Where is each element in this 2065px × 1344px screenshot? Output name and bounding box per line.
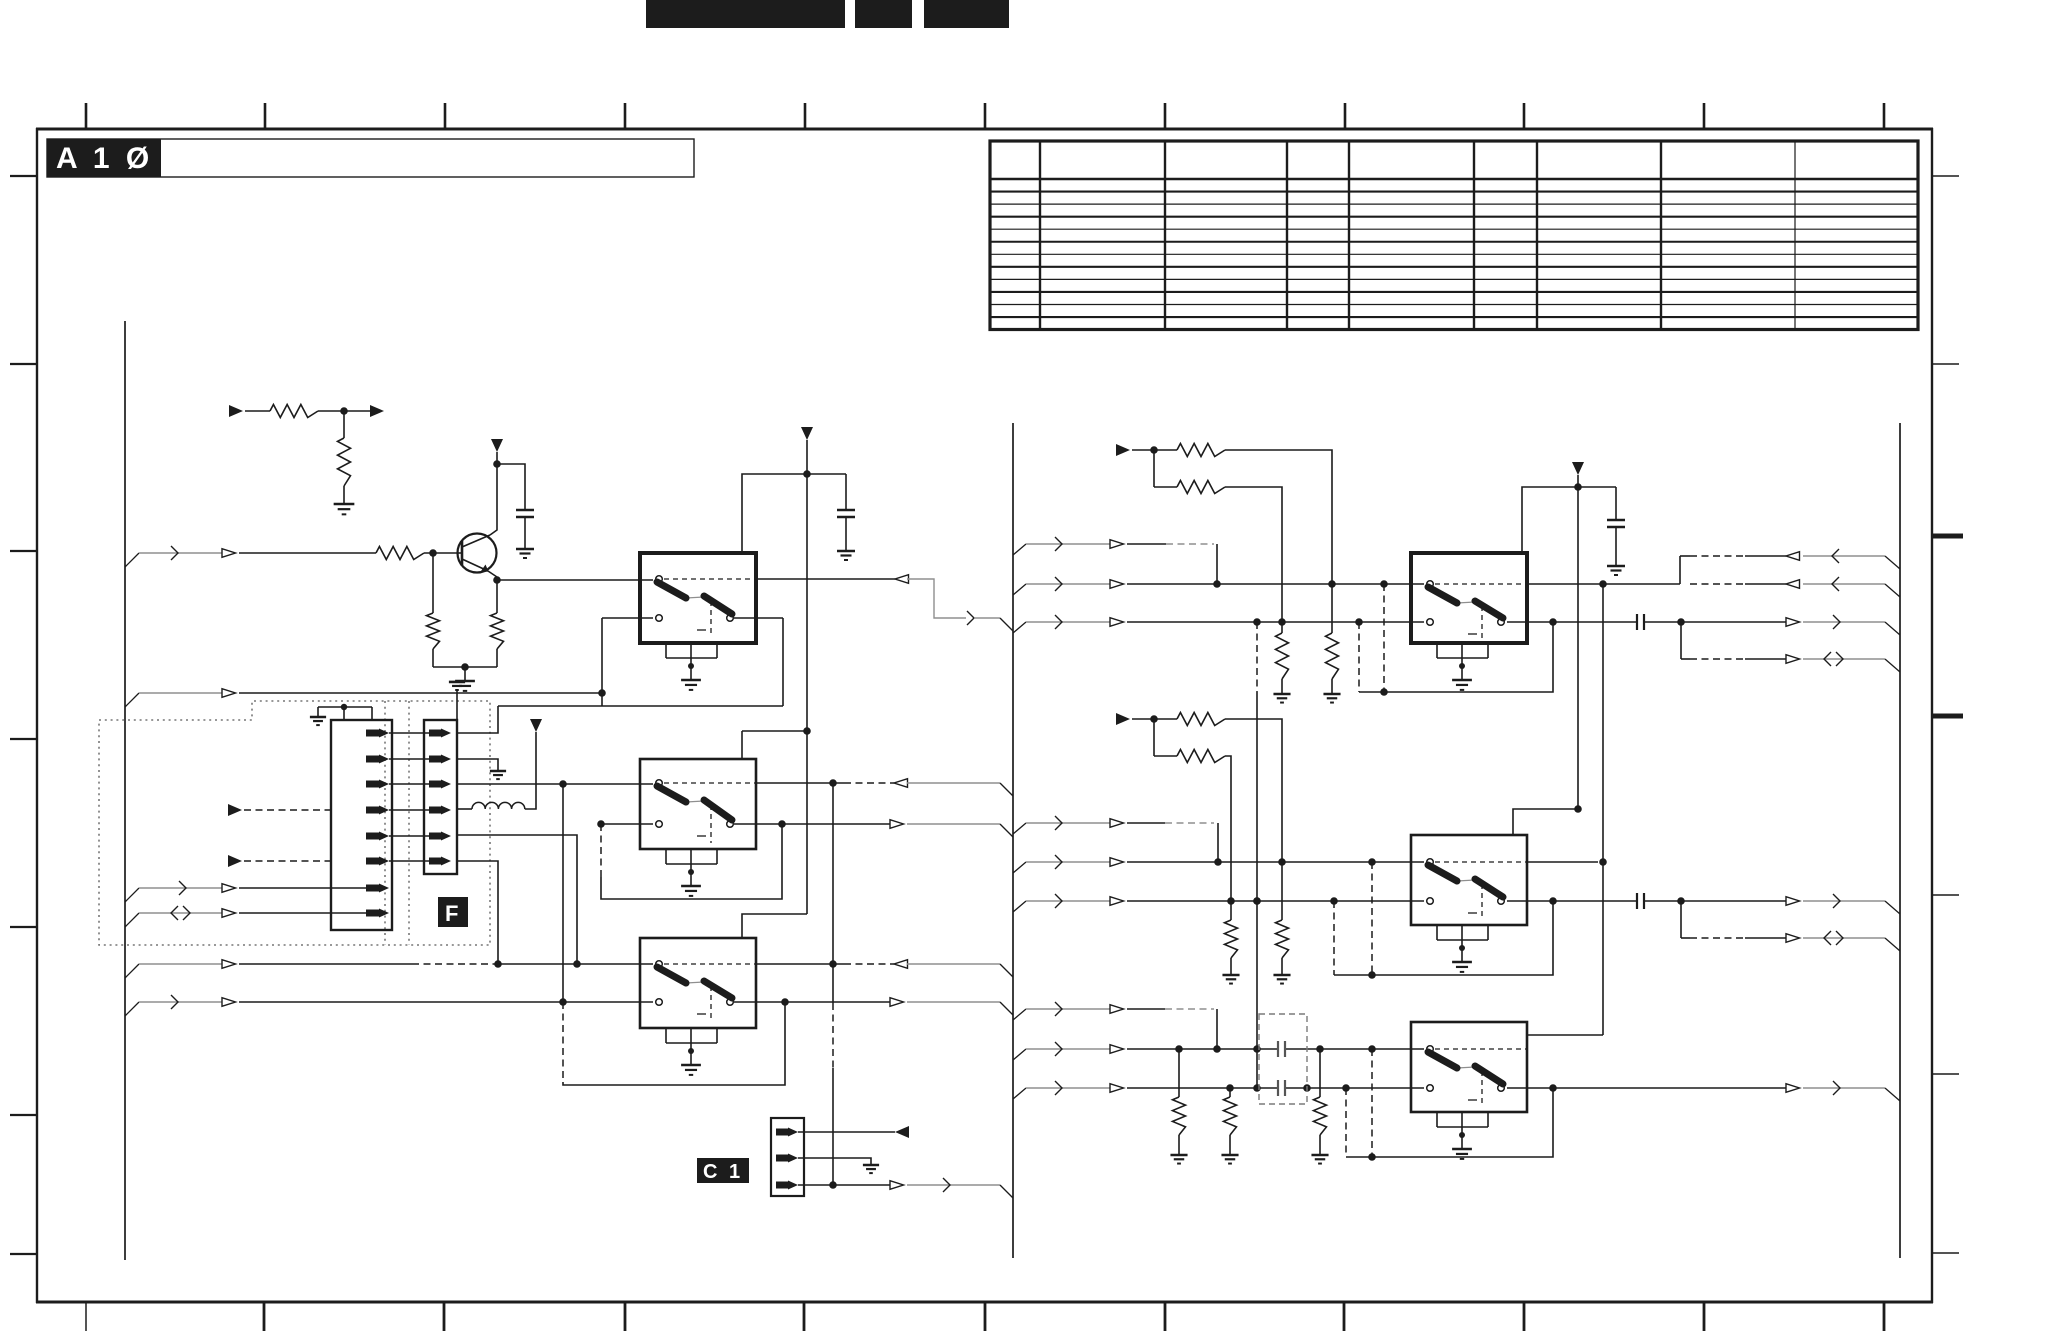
bus exit diagonal <box>1013 1009 1026 1020</box>
wire to bus <box>1803 555 1885 557</box>
connector X2 pin 4 <box>366 807 379 814</box>
signal arrow <box>1110 858 1124 867</box>
off-page arrow output top-left <box>370 405 384 417</box>
connector X2 pin 5 <box>366 833 379 840</box>
resistor R1 <box>270 405 318 418</box>
wire <box>1615 527 1617 566</box>
S3 internal dashed link <box>664 963 756 965</box>
capacitor C3 <box>1607 519 1625 521</box>
wire <box>524 517 526 549</box>
wire C1 pin1 <box>798 1131 895 1133</box>
S5 ground <box>1461 948 1463 962</box>
ground <box>455 680 475 683</box>
resistor <box>1177 481 1225 494</box>
wire <box>845 474 847 510</box>
wire - bus exit y964 <box>125 964 139 978</box>
power arrow +V right <box>1572 462 1584 475</box>
connector C1 label <box>697 1158 749 1183</box>
wire <box>239 692 602 694</box>
ground <box>516 548 534 551</box>
S4 lever contacts <box>1457 602 1475 603</box>
off-page arrow <box>895 1126 909 1138</box>
wire dashed <box>244 860 331 862</box>
ground <box>490 770 506 773</box>
switch S5 <box>1411 835 1527 925</box>
S3 lever contacts <box>686 982 704 983</box>
wire <box>1153 450 1155 487</box>
wire - S3 top <box>742 914 807 938</box>
bus entry diagonal <box>1885 556 1900 569</box>
signal arrow <box>1786 618 1800 627</box>
ground <box>1607 565 1625 568</box>
wire dashed <box>844 963 894 965</box>
signal arrow <box>895 575 909 584</box>
connector X1 body <box>424 720 457 874</box>
wire to bus <box>1803 583 1885 585</box>
signal arrow <box>1110 1084 1124 1093</box>
svg-text:C 1: C 1 <box>703 1161 743 1183</box>
signal arrow <box>894 779 908 788</box>
S3 ground <box>690 1051 692 1065</box>
switch S6 <box>1411 1022 1527 1112</box>
off-page arrow into X2 pin6 <box>228 855 242 867</box>
wire - bus exit y693 <box>125 693 139 707</box>
wire dashed drop <box>1333 901 1335 975</box>
bus entry diagonal <box>1885 901 1900 914</box>
wire - drop x563 <box>562 784 564 1002</box>
wire - S1 lower pins <box>602 617 653 619</box>
bidirectional chevron <box>171 906 178 920</box>
connector C1 pin 2 <box>776 1155 788 1162</box>
power arrow +V coil <box>530 719 542 732</box>
resistor shunt <box>1229 1088 1231 1097</box>
S6 pin circles bottom <box>1427 1085 1434 1092</box>
wire - S4 top supply <box>1522 487 1616 553</box>
ground <box>1323 693 1340 696</box>
signal arrow <box>1110 1005 1124 1014</box>
node junction <box>597 820 605 828</box>
border tick marks left <box>10 175 37 177</box>
connector C1 pin 1 <box>776 1129 788 1136</box>
S6 pin circle top <box>1427 1046 1434 1053</box>
bus entry diagonal <box>1885 584 1900 597</box>
wire - S1 top supply <box>742 474 846 553</box>
signal arrow <box>1786 552 1800 561</box>
wire X1 pin1 <box>457 706 498 733</box>
wire <box>239 1001 653 1003</box>
ground <box>1170 1154 1187 1157</box>
signal arrow <box>222 960 236 969</box>
capacitor C7 <box>1277 1080 1279 1096</box>
border frame <box>36 128 1933 131</box>
wire - loop under S1 <box>601 618 603 706</box>
wire <box>239 552 376 554</box>
signal arrow <box>1786 1084 1800 1093</box>
node junction <box>1150 715 1158 723</box>
wire <box>1026 861 1110 863</box>
wire <box>1132 718 1177 720</box>
wire X1 pin2 to ground <box>457 759 498 771</box>
wire - base bias <box>432 553 434 613</box>
ground <box>1222 974 1239 977</box>
wire - S6 B output <box>1507 1087 1786 1089</box>
S1 ground <box>690 666 692 680</box>
wire dashed drop <box>1371 1049 1373 1157</box>
wire to bus <box>907 1001 1000 1003</box>
border tick marks right <box>1932 534 1963 539</box>
bus exit diagonal <box>1013 823 1026 834</box>
signal arrow <box>890 820 904 829</box>
wire <box>1026 822 1110 824</box>
wire - S3 lower right <box>734 1001 890 1003</box>
wire X1 pin6 <box>457 861 498 964</box>
switch S4 <box>1411 553 1527 643</box>
wire <box>525 732 536 809</box>
S1 pin circles bottom <box>656 615 663 622</box>
S5 internal dashed link <box>1435 861 1527 863</box>
off-page arrow feed <box>1116 444 1130 456</box>
wire to bus <box>907 963 1000 965</box>
wire C1 pin3 <box>798 1184 890 1186</box>
wires X2 to X1 <box>389 732 429 734</box>
S1 pin circle top <box>656 576 663 583</box>
S2 lever contacts <box>686 801 704 802</box>
S5 pin circles bottom <box>1427 898 1434 905</box>
wire - lower feed to line B <box>1225 487 1282 622</box>
signal arrow <box>1110 1045 1124 1054</box>
S3 bottom pins <box>665 1028 667 1043</box>
wire - bus exit y1002 <box>125 1002 139 1016</box>
wire to bus <box>907 823 1000 825</box>
ground <box>1221 1154 1238 1157</box>
wire - aux out <box>1680 901 1682 938</box>
wire dashed drop <box>1383 584 1385 692</box>
wire <box>1153 719 1155 756</box>
ground <box>1273 974 1290 977</box>
S2 ground <box>690 872 692 886</box>
signal arrow <box>1110 618 1124 627</box>
connector C1 pin 3 <box>776 1182 788 1189</box>
wire <box>239 963 412 965</box>
signal arrow <box>1110 540 1124 549</box>
title bar redaction block 1 <box>646 0 845 28</box>
ground <box>863 1164 879 1167</box>
chevron <box>171 546 178 560</box>
wire - emitter resistor <box>496 580 498 613</box>
bus exit diagonal <box>1013 1088 1026 1099</box>
node junction <box>1150 446 1158 454</box>
border tick marks bottom <box>85 1303 87 1331</box>
wire - bus exit y888 <box>125 888 139 902</box>
wire dashed <box>244 809 331 811</box>
title bar redaction block 3 <box>924 0 1009 28</box>
parts table grid <box>990 141 1918 330</box>
connector X2 pin 6 <box>366 858 379 865</box>
node junction <box>803 727 811 735</box>
bus entry diagonal <box>1885 622 1900 635</box>
wire to bus <box>1803 900 1885 902</box>
wire - S2 lower pins <box>601 823 653 825</box>
bus entry diagonal <box>1885 938 1900 951</box>
S3 pin circle top <box>656 961 663 968</box>
wire to bus <box>907 782 1000 784</box>
wire <box>239 887 366 889</box>
connector X2 pin 7 <box>366 885 379 892</box>
node junction <box>803 470 811 478</box>
signal arrow <box>890 998 904 1007</box>
connector X1 pin 2 <box>429 756 441 763</box>
connector X1 pin 3 <box>429 781 441 788</box>
wire to bus <box>1803 1087 1885 1089</box>
signal arrow <box>1786 934 1800 943</box>
signal arrow <box>222 909 236 918</box>
ground <box>837 550 855 553</box>
wire - bus exit y553 <box>125 553 139 567</box>
signal arrow <box>1786 897 1800 906</box>
wire - S2 output <box>756 782 844 784</box>
wire <box>433 666 497 668</box>
wire <box>1026 900 1110 902</box>
resistor <box>1177 750 1225 763</box>
shield partition dotted <box>384 701 386 945</box>
wire - control drop x833 <box>832 783 834 1003</box>
wire - emitter node <box>488 571 497 580</box>
signal arrow <box>1110 819 1124 828</box>
bus exit diagonal <box>1013 622 1026 633</box>
wire dashed drop <box>1358 622 1360 692</box>
wire <box>343 411 345 438</box>
resistor R3 <box>376 547 424 560</box>
S2 pin circle top <box>656 780 663 787</box>
wire - S4 A line out <box>1527 583 1680 585</box>
wire - right return A <box>1690 583 1745 585</box>
wire - left feeder bus <box>124 321 126 1260</box>
node junction <box>494 960 502 968</box>
wire <box>239 912 366 914</box>
resistor <box>1177 713 1225 726</box>
F block label <box>438 897 468 927</box>
ground <box>334 503 355 506</box>
off-page arrow into X2 pin4 <box>228 804 242 816</box>
wire X1 pin4 to coil <box>457 808 472 810</box>
signal arrow <box>222 549 236 558</box>
sheet label A1-zero box <box>47 139 694 177</box>
wire <box>782 823 890 825</box>
node junction <box>829 779 837 787</box>
resistor R2 <box>338 438 351 486</box>
S2 pin circles bottom <box>656 821 663 828</box>
node junction <box>461 663 469 671</box>
wire dashed drop <box>1345 1088 1347 1157</box>
wire to bus <box>907 1184 1000 1186</box>
wire - long drop x1257 <box>1256 622 1258 692</box>
wire - upper feed to line A <box>1225 719 1282 862</box>
S1 lever contacts <box>686 597 704 598</box>
wire <box>1026 583 1110 585</box>
node junction <box>573 960 581 968</box>
bus exit diagonal <box>1013 862 1026 873</box>
wire - drop x1603 lower <box>1602 862 1604 1035</box>
wire X1 pin3 to S2 <box>457 783 653 785</box>
off-page arrow feed <box>1116 713 1130 725</box>
connector C1 body <box>771 1118 804 1196</box>
bus exit diagonal <box>1013 544 1026 555</box>
ground <box>1311 1154 1328 1157</box>
bus exit diagonal <box>1013 584 1026 595</box>
node junction <box>781 998 789 1006</box>
shield outline dotted <box>99 701 490 945</box>
capacitor block dashed outline <box>1259 1014 1307 1104</box>
resistor shunt <box>1331 584 1333 633</box>
wire dashed <box>412 963 498 965</box>
wire - aux out <box>1680 622 1682 659</box>
resistor shunt <box>1230 901 1232 920</box>
inductor L1 <box>472 802 525 809</box>
signal arrow <box>1110 580 1124 589</box>
off-page arrow input top-left <box>229 405 243 417</box>
S4 internal dashed link <box>1435 583 1527 585</box>
wire - upper feed to line A <box>1225 450 1332 584</box>
resistor <box>1177 444 1225 457</box>
bus exit diagonal <box>1013 901 1026 912</box>
wire <box>498 963 653 965</box>
wire to bus <box>1803 621 1885 623</box>
wire - lower feed to line B <box>1225 756 1231 901</box>
power arrow +V mid <box>801 427 813 440</box>
S2 bottom pins <box>665 849 667 864</box>
resistor R4 <box>427 613 440 649</box>
connector X2 pin 1 <box>366 730 379 737</box>
connector X2 pin 2 <box>366 756 379 763</box>
shield partition dotted <box>408 701 410 945</box>
resistor shunt <box>1281 862 1283 920</box>
wire - loop under S5 <box>1334 901 1553 975</box>
wire <box>1026 1087 1110 1089</box>
S2 internal dashed link <box>664 782 756 784</box>
wire <box>1644 900 1786 902</box>
ground <box>1273 693 1290 696</box>
wire - S1 return to bus <box>907 579 966 618</box>
connector X1 pin 4 <box>429 807 441 814</box>
S5 pin circle top <box>1427 859 1434 866</box>
capacitor C2 <box>837 509 855 511</box>
connector X2 body <box>331 720 392 930</box>
S4 pin circle top <box>1427 581 1434 588</box>
node junction <box>340 407 348 415</box>
connector X1 pin 6 <box>429 858 441 865</box>
switch S2 <box>640 759 756 849</box>
wire - loop under S6 <box>1346 1088 1553 1157</box>
transistor Q1 <box>458 534 497 573</box>
wire <box>1026 543 1110 545</box>
node junction <box>598 689 606 697</box>
wire <box>424 552 458 554</box>
wire - drop x1603 <box>1602 584 1604 861</box>
bus entry diagonal <box>1885 1088 1900 1101</box>
wire <box>464 667 466 681</box>
bus exit diagonal <box>1013 1049 1026 1060</box>
bus vertical right <box>1899 423 1901 1258</box>
connector X2 pin 8 <box>366 910 379 917</box>
S6 lever contacts <box>1457 1067 1475 1068</box>
svg-text:A 1 Ø: A 1 Ø <box>56 142 153 175</box>
wire - right return upper <box>1679 556 1681 584</box>
wire X1 pin5 <box>457 835 577 964</box>
wire <box>245 410 270 412</box>
signal arrow <box>222 689 236 698</box>
switch S3 <box>640 938 756 1028</box>
wire <box>1132 449 1177 451</box>
wire - S5 A line out <box>1527 861 1598 863</box>
S4 pin circles bottom <box>1427 619 1434 626</box>
signal arrow <box>890 1181 904 1190</box>
border tick marks top <box>85 103 88 128</box>
wire - collector to supply node <box>490 464 497 535</box>
wire to bus <box>1803 937 1885 939</box>
wire - Q1 emitter to S1 <box>497 579 653 581</box>
connector X1 pin 5 <box>429 833 441 840</box>
wire - S5 B output <box>1507 900 1637 902</box>
wire - loop under S4 <box>1359 622 1553 692</box>
wire <box>1615 487 1617 520</box>
wire <box>497 464 525 510</box>
resistor R5 <box>491 613 504 649</box>
wire <box>343 486 345 504</box>
wire dashed <box>844 782 894 784</box>
wire C1 pin2 <box>798 1158 871 1165</box>
S1 internal dashed link <box>664 578 756 580</box>
wire - S1 output <box>756 578 895 580</box>
wire - loop under S2 <box>600 824 602 877</box>
wire - S3 output <box>756 963 844 965</box>
capacitor C1 <box>516 509 534 511</box>
wire <box>1026 1048 1110 1050</box>
wire - S2 top <box>741 731 743 759</box>
connector X2 pin 3 <box>366 781 379 788</box>
S4 bottom pins <box>1436 643 1438 658</box>
capacitor C5 <box>1636 893 1638 909</box>
power arrow +V <box>491 439 503 452</box>
node junction <box>829 1181 837 1189</box>
bus vertical center <box>1012 423 1014 1258</box>
wire <box>496 649 498 667</box>
resistor shunt <box>1178 1049 1180 1097</box>
wire <box>432 649 434 667</box>
signal arrow <box>1786 655 1800 664</box>
S4 ground <box>1461 666 1463 680</box>
resistor shunt <box>1319 1049 1321 1097</box>
wire to bus <box>1803 658 1885 660</box>
signal arrow <box>894 960 908 969</box>
signal arrow <box>1786 580 1800 589</box>
S5 bottom pins <box>1436 925 1438 940</box>
capacitor C6 <box>1277 1041 1279 1057</box>
ground above X1 <box>456 690 458 720</box>
bus entry diagonal <box>1885 659 1900 672</box>
wire <box>845 517 847 551</box>
resistor shunt <box>1281 622 1283 633</box>
S3 pin circles bottom <box>656 999 663 1006</box>
signal arrow <box>1110 897 1124 906</box>
signal arrow <box>222 998 236 1007</box>
node junction <box>493 460 501 468</box>
wire - to S2 top <box>742 730 807 732</box>
svg-text:F: F <box>445 901 458 926</box>
wire - supply drop x807 <box>806 440 808 914</box>
wire - supply drop x1578 <box>1513 487 1578 835</box>
node junction <box>829 960 837 968</box>
wire dashed drop <box>1371 862 1373 975</box>
